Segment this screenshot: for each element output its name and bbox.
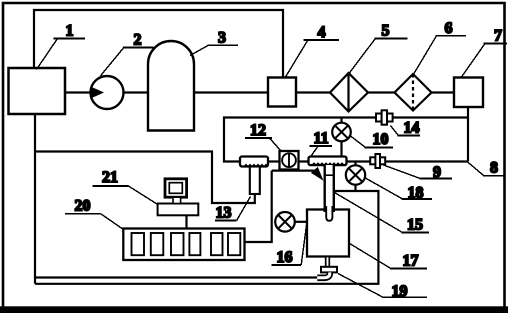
label 4 [286, 24, 339, 77]
label 12 [245, 122, 281, 151]
wire box20 to enclosure edge [245, 171, 272, 242]
label 11 [310, 130, 332, 157]
svg-text:21: 21 [102, 169, 118, 186]
svg-text:5: 5 [382, 23, 390, 40]
valve 10 [340, 118, 342, 157]
label 5 [348, 23, 408, 76]
svg-text:14: 14 [404, 120, 420, 137]
sampling bar 13 [240, 157, 268, 167]
svg-text:11: 11 [314, 130, 329, 147]
computer 21 base [158, 204, 199, 216]
svg-text:4: 4 [318, 24, 326, 41]
valve 18 [354, 162, 356, 192]
label 14 [391, 120, 421, 137]
probe tube 13 [250, 167, 260, 195]
label 3 [190, 30, 238, 56]
svg-text:15: 15 [407, 217, 423, 234]
flow meter 12 [280, 151, 299, 170]
label 17 [349, 243, 427, 270]
arrow into tube [311, 167, 324, 181]
pump 2 [91, 76, 124, 109]
combustion box 17 [307, 210, 349, 257]
fitting 9 [370, 154, 385, 168]
svg-text:7: 7 [494, 28, 502, 45]
label 19 [338, 274, 427, 301]
label 20 [65, 198, 124, 230]
data logger 20 [123, 229, 244, 261]
label 6 [413, 20, 466, 76]
bottom thick bar [0, 306, 508, 313]
drain valve bar 19 [321, 267, 337, 273]
svg-text:17: 17 [403, 253, 419, 270]
drain elbow 19 [317, 272, 330, 277]
svg-text:20: 20 [75, 198, 91, 215]
box 7 [454, 78, 483, 108]
label 21 [93, 169, 159, 205]
label 2 [101, 32, 154, 76]
wire enclosure top edge with arrow to tube [272, 170, 315, 172]
fitting 14 [376, 110, 393, 124]
label 16 [272, 225, 307, 266]
label 18 [365, 178, 432, 202]
wire main pipe y=92.5 [65, 91, 454, 93]
burner tube 15 [326, 165, 333, 212]
svg-text:10: 10 [373, 131, 389, 148]
label 9 [384, 164, 452, 181]
svg-text:16: 16 [277, 249, 293, 266]
valve 16 [275, 212, 295, 232]
svg-text:1: 1 [66, 23, 74, 40]
wire top bypass line box1 to box4 [34, 10, 283, 77]
wire lower pipe bar11 to right vertical [347, 160, 469, 162]
vessel 3 [148, 41, 194, 131]
svg-text:6: 6 [445, 20, 453, 37]
drain stem [326, 257, 330, 268]
filter 6 [395, 74, 432, 111]
wire bar13 to meter12 to bar11 [268, 160, 309, 162]
computer 21 monitor [165, 179, 187, 197]
wire bottom lower line and right riser to tube union [35, 191, 378, 284]
svg-text:2: 2 [134, 32, 142, 49]
filter 5 [330, 73, 368, 112]
wire left return loop to probe13 [35, 152, 255, 204]
label 15 [335, 193, 430, 234]
svg-text:12: 12 [250, 122, 266, 139]
wire right vertical from box7 [467, 107, 469, 162]
box 1 [9, 68, 66, 114]
box 4 [268, 78, 296, 107]
wire left vertical below box1 [34, 114, 36, 284]
svg-text:8: 8 [490, 160, 498, 177]
svg-text:3: 3 [218, 30, 226, 47]
label 8 [468, 160, 505, 177]
sampling bar 11 [309, 157, 347, 166]
wire upper sampling pipe y=117.5 [224, 118, 468, 162]
label 10 [351, 131, 394, 148]
nozzle tip 15 [326, 206, 332, 221]
label 13 [215, 197, 251, 222]
label 7 [462, 28, 508, 78]
label 1 [37, 23, 86, 70]
wire bottom upper line to drain19 [35, 276, 317, 278]
svg-text:13: 13 [216, 205, 232, 222]
